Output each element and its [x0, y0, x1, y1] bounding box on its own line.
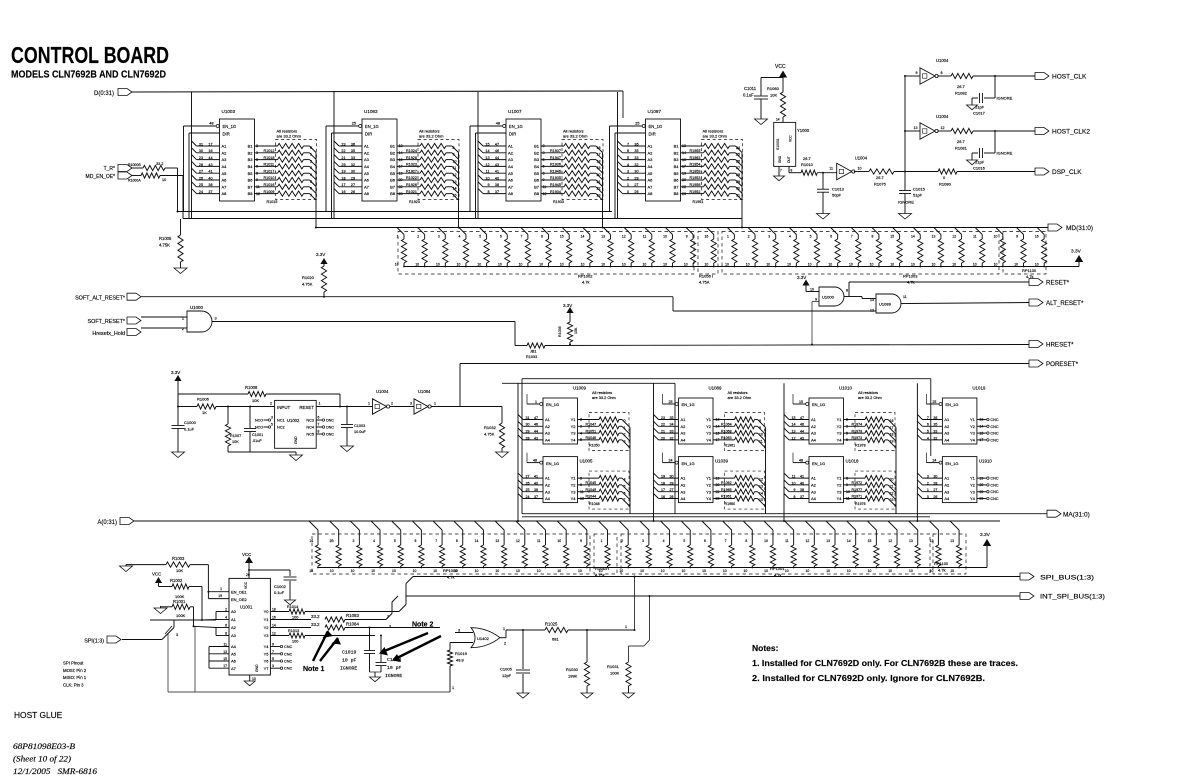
svg-text:DIR: DIR — [509, 131, 516, 136]
svg-text:B3: B3 — [248, 157, 254, 162]
resistor network of U1005 — [578, 476, 626, 507]
svg-text:NC3: NC3 — [306, 419, 314, 423]
svg-text:R1023: R1023 — [406, 163, 417, 167]
svg-text:2: 2 — [270, 402, 272, 406]
svg-text:A2: A2 — [545, 483, 551, 488]
svg-text:U1002: U1002 — [287, 418, 300, 423]
svg-text:13: 13 — [950, 539, 954, 543]
no-connects Y4-Y7 — [270, 645, 292, 671]
or gate U1402 — [450, 628, 500, 648]
ground below R1030 — [581, 693, 593, 698]
node ALT_RESET* output — [1029, 299, 1084, 307]
svg-text:7: 7 — [851, 235, 853, 239]
svg-text:10: 10 — [477, 263, 481, 267]
svg-text:8: 8 — [745, 539, 747, 543]
svg-text:2: 2 — [627, 176, 629, 180]
svg-text:C1005: C1005 — [500, 667, 513, 672]
svg-text:37: 37 — [208, 190, 212, 194]
wire input fan U1005 — [518, 473, 543, 499]
svg-text:NC5: NC5 — [306, 433, 314, 437]
svg-text:A3: A3 — [231, 633, 237, 638]
svg-text:S10031: S10031 — [776, 138, 780, 150]
svg-text:10K: 10K — [574, 327, 578, 334]
svg-text:13: 13 — [601, 235, 605, 239]
text SPI pinout — [63, 661, 87, 688]
svg-text:A5: A5 — [508, 171, 514, 176]
wire U1083 EN/DIR stubs — [326, 126, 362, 219]
wire pullup common rail row2 — [318, 567, 987, 569]
wire U1003 EN/DIR stubs — [184, 126, 220, 219]
svg-text:B4: B4 — [674, 164, 680, 169]
svg-text:3.3V: 3.3V — [563, 303, 572, 308]
svg-text:R1031: R1031 — [607, 664, 620, 669]
svg-text:0.1uF: 0.1uF — [274, 590, 285, 595]
svg-text:GND: GND — [294, 436, 298, 444]
svg-text:ONC: ONC — [326, 419, 334, 423]
svg-text:10: 10 — [808, 263, 812, 267]
resistor R1038 10K pull-up — [558, 303, 578, 346]
wire input fan U1018 — [784, 473, 809, 499]
svg-text:B8: B8 — [534, 191, 540, 196]
svg-text:4: 4 — [927, 436, 929, 440]
svg-text:R1063: R1063 — [721, 436, 732, 440]
svg-text:12: 12 — [622, 235, 626, 239]
resistor R1005 4.75K — [159, 219, 183, 268]
svg-text:6: 6 — [704, 539, 706, 543]
text HOST GLUE — [14, 710, 63, 720]
svg-text:R1032: R1032 — [484, 425, 497, 430]
svg-text:3: 3 — [642, 539, 644, 543]
svg-text:1: 1 — [434, 402, 436, 406]
svg-text:14: 14 — [792, 423, 796, 427]
svg-text:4: 4 — [225, 616, 227, 620]
svg-text:4.75K: 4.75K — [302, 282, 313, 287]
ground below C1000 — [172, 452, 185, 458]
svg-text:R1952: R1952 — [690, 190, 701, 194]
svg-text:R1933: R1933 — [553, 200, 564, 204]
svg-text:A2: A2 — [681, 424, 687, 429]
svg-text:RESET*: RESET* — [1046, 280, 1070, 287]
svg-text:2: 2 — [748, 235, 750, 239]
svg-text:12: 12 — [941, 126, 945, 130]
dashed outline U1018 pack — [855, 471, 895, 509]
svg-text:B1: B1 — [390, 144, 396, 149]
svg-text:A3: A3 — [508, 157, 514, 162]
no-connects NCO left — [255, 416, 273, 430]
svg-text:26: 26 — [526, 481, 530, 485]
wire ALT_RESET* run — [901, 295, 1029, 304]
svg-text:43: 43 — [800, 436, 804, 440]
node SPI(1:3) input — [84, 636, 121, 645]
svg-text:37: 37 — [800, 495, 804, 499]
svg-text:32: 32 — [634, 163, 638, 167]
svg-text:10: 10 — [684, 263, 688, 267]
dashed outline RP1100 — [1003, 232, 1046, 280]
svg-text:11: 11 — [829, 167, 833, 171]
svg-text:10: 10 — [557, 569, 561, 573]
svg-text:41: 41 — [208, 170, 212, 174]
svg-text:38: 38 — [800, 488, 804, 492]
capacitor C1003 10.0uF — [341, 407, 367, 447]
svg-text:10: 10 — [413, 569, 417, 573]
wire SPI_BUS drop — [625, 576, 636, 632]
svg-text:3: 3 — [768, 235, 770, 239]
svg-text:B4: B4 — [390, 164, 396, 169]
svg-text:10: 10 — [661, 569, 665, 573]
svg-text:4.75A: 4.75A — [699, 280, 710, 285]
svg-text:A7: A7 — [231, 666, 237, 671]
svg-text:23: 23 — [661, 416, 665, 420]
svg-text:10: 10 — [495, 569, 499, 573]
resistor R1008 10K bypass — [178, 385, 340, 407]
svg-text:7: 7 — [627, 142, 629, 146]
svg-text:10: 10 — [810, 288, 814, 292]
svg-text:U1000: U1000 — [190, 305, 203, 310]
svg-text:U1001: U1001 — [240, 605, 253, 610]
svg-text:12/1/2005 SMR-6816: 12/1/2005 SMR-6816 — [13, 767, 97, 776]
svg-text:A8: A8 — [222, 191, 228, 196]
wire input fan U1009 — [518, 415, 543, 441]
wire EN stub U1005 — [527, 453, 540, 463]
svg-text:7: 7 — [780, 169, 782, 173]
svg-text:35: 35 — [351, 149, 355, 153]
svg-text:A4: A4 — [811, 496, 817, 501]
svg-text:Y1: Y1 — [837, 476, 843, 481]
svg-text:NC2: NC2 — [277, 426, 285, 430]
svg-text:R1000B: R1000B — [128, 163, 141, 167]
svg-text:A3: A3 — [681, 431, 687, 436]
svg-text:U1019: U1019 — [972, 386, 985, 391]
svg-text:B8: B8 — [390, 191, 396, 196]
svg-text:26: 26 — [634, 190, 638, 194]
svg-text:Y7: Y7 — [264, 666, 270, 671]
svg-text:8: 8 — [487, 190, 489, 194]
svg-text:10: 10 — [351, 569, 355, 573]
svg-text:19: 19 — [341, 170, 345, 174]
svg-text:R1024: R1024 — [406, 149, 417, 153]
svg-text:13: 13 — [495, 539, 499, 543]
ground below U1002 — [290, 455, 303, 461]
svg-text:10: 10 — [330, 569, 334, 573]
svg-text:681: 681 — [552, 637, 559, 642]
svg-text:10K: 10K — [232, 440, 239, 444]
svg-text:CNC: CNC — [284, 660, 292, 664]
svg-text:10: 10 — [911, 263, 915, 267]
svg-text:VCC: VCC — [242, 552, 251, 557]
svg-text:21: 21 — [341, 156, 345, 160]
svg-text:14: 14 — [475, 539, 479, 543]
capacitor C1013 50pF — [817, 173, 845, 214]
svg-text:10: 10 — [519, 263, 523, 267]
svg-text:R1050: R1050 — [589, 443, 600, 447]
svg-text:R1045: R1045 — [586, 481, 597, 485]
svg-text:A6: A6 — [508, 178, 514, 183]
svg-text:31: 31 — [526, 416, 530, 420]
svg-text:2: 2 — [504, 642, 506, 646]
svg-text:are 33.2 Ohm: are 33.2 Ohm — [703, 134, 728, 139]
svg-text:27: 27 — [634, 183, 638, 187]
svg-text:40: 40 — [534, 481, 538, 485]
svg-text:B3: B3 — [674, 157, 680, 162]
wire PORESET* run — [460, 364, 1029, 407]
svg-text:R1951: R1951 — [693, 200, 704, 204]
wire output fan U1009 — [622, 420, 630, 514]
node MA(31:0) output — [1047, 510, 1090, 518]
svg-text:R1008: R1008 — [245, 385, 258, 390]
svg-text:EN_1G: EN_1G — [682, 402, 695, 407]
svg-text:IGNORE: IGNORE — [340, 666, 357, 672]
svg-text:A2: A2 — [648, 150, 654, 155]
svg-text:EN_OE2: EN_OE2 — [231, 597, 248, 602]
svg-text:5: 5 — [394, 539, 396, 543]
no-connects ONC right — [316, 416, 334, 423]
wire EN stub U1009 — [527, 394, 540, 404]
svg-text:R1081: R1081 — [955, 146, 968, 151]
svg-text:10: 10 — [475, 569, 479, 573]
svg-text:R1068: R1068 — [721, 429, 732, 433]
svg-text:3.3V: 3.3V — [316, 252, 325, 257]
svg-text:32: 32 — [351, 163, 355, 167]
svg-text:C1002: C1002 — [274, 584, 287, 589]
wire input fan U1910 — [917, 473, 942, 499]
wire RESET* run — [844, 282, 1029, 297]
wire SPI input run — [122, 620, 216, 640]
buffer IC U1089 — [669, 386, 722, 445]
svg-text:44: 44 — [800, 430, 804, 434]
svg-text:EN_1G: EN_1G — [812, 461, 825, 466]
node MD_EN_OE* input — [86, 172, 132, 180]
svg-text:A1: A1 — [944, 417, 950, 422]
svg-text:26.7: 26.7 — [803, 156, 812, 161]
svg-text:34: 34 — [670, 423, 674, 427]
svg-text:C1001: C1001 — [252, 433, 263, 437]
svg-text:CNC: CNC — [284, 645, 292, 649]
svg-text:R1022: R1022 — [406, 176, 417, 180]
wire reset gate output run — [212, 322, 527, 346]
svg-text:B5: B5 — [390, 171, 396, 176]
ground below R1031 — [623, 693, 635, 698]
svg-text:B4: B4 — [534, 164, 540, 169]
svg-text:R1051: R1051 — [586, 429, 597, 433]
svg-text:MODELS CLN7692B AND CLN7692D: MODELS CLN7692B AND CLN7692D — [11, 70, 166, 81]
svg-text:C1000: C1000 — [184, 420, 197, 425]
capacitor C1017 51pF IGNORE — [972, 76, 1013, 116]
svg-text:Note 2: Note 2 — [412, 622, 434, 629]
resistor network of U1009 — [578, 390, 626, 447]
svg-text:13: 13 — [223, 650, 227, 654]
svg-text:DSP_CLK: DSP_CLK — [1052, 169, 1082, 176]
wire mid routing rect top2 — [502, 382, 675, 384]
svg-text:EN_1G: EN_1G — [546, 461, 559, 466]
svg-text:C1015: C1015 — [913, 187, 926, 192]
svg-text:A6: A6 — [648, 178, 654, 183]
svg-text:10: 10 — [890, 263, 894, 267]
svg-text:Y2: Y2 — [970, 483, 976, 488]
node MD(31:0) output — [1048, 224, 1093, 232]
svg-text:A4: A4 — [681, 438, 687, 443]
svg-text:10: 10 — [994, 263, 998, 267]
wire U1402 output — [500, 627, 546, 646]
node T_R* input — [104, 165, 132, 173]
svg-text:30: 30 — [670, 475, 674, 479]
svg-text:R1971: R1971 — [852, 495, 863, 499]
svg-text:A4: A4 — [944, 438, 950, 443]
svg-text:27: 27 — [933, 488, 937, 492]
svg-text:1: 1 — [601, 539, 603, 543]
svg-text:37: 37 — [534, 495, 538, 499]
svg-text:U1000: U1000 — [822, 295, 835, 300]
svg-text:5: 5 — [627, 156, 629, 160]
svg-text:B1: B1 — [674, 144, 680, 149]
svg-text:Y4: Y4 — [837, 496, 843, 501]
svg-text:14: 14 — [581, 235, 585, 239]
ground below C1002 — [285, 600, 296, 605]
svg-text:17: 17 — [223, 664, 227, 668]
wire output fan U1005 — [622, 478, 630, 514]
svg-text:Y2: Y2 — [264, 625, 270, 630]
svg-text:HOST_CLK: HOST_CLK — [1052, 74, 1087, 81]
svg-text:30: 30 — [526, 423, 530, 427]
svg-text:5: 5 — [272, 657, 274, 661]
wire T_R vertical joins — [177, 168, 184, 219]
svg-text:EN_1G: EN_1G — [649, 124, 663, 129]
svg-text:Note 1: Note 1 — [303, 666, 325, 673]
ground R1003 left — [120, 565, 167, 572]
svg-text:7: 7 — [435, 539, 437, 543]
svg-text:A6: A6 — [222, 178, 228, 183]
buffer IC U1083 — [352, 109, 397, 201]
svg-text:1K: 1K — [202, 410, 207, 415]
svg-text:15: 15 — [792, 416, 796, 420]
resistor R1084 33.2 — [270, 622, 440, 631]
svg-text:CNC: CNC — [990, 418, 998, 422]
svg-text:CNC: CNC — [990, 490, 998, 494]
svg-text:12: 12 — [516, 539, 520, 543]
svg-text:5: 5 — [927, 430, 929, 434]
svg-text:HOST GLUE: HOST GLUE — [14, 710, 63, 720]
svg-text:19: 19 — [661, 475, 665, 479]
svg-text:VCC: VCC — [244, 581, 248, 589]
svg-text:4: 4 — [663, 539, 665, 543]
svg-text:R1011: R1011 — [264, 163, 275, 167]
svg-text:R1020: R1020 — [302, 275, 315, 280]
svg-text:are 33.2 Ohm: are 33.2 Ohm — [419, 134, 444, 139]
svg-text:CLK: Pin 3: CLK: Pin 3 — [63, 682, 84, 687]
wire output fan U1010 — [888, 420, 896, 514]
no-connects U1019 — [977, 418, 999, 443]
svg-text:SPI_BUS(1:3): SPI_BUS(1:3) — [1040, 575, 1094, 582]
svg-text:R1009: R1009 — [264, 190, 275, 194]
svg-text:33: 33 — [634, 156, 638, 160]
svg-text:Y1: Y1 — [571, 476, 577, 481]
svg-text:10: 10 — [162, 178, 166, 182]
svg-text:31: 31 — [199, 142, 203, 146]
svg-text:Y3: Y3 — [706, 431, 712, 436]
svg-text:Y4: Y4 — [706, 496, 712, 501]
svg-text:NC4: NC4 — [306, 426, 314, 430]
wire output fan U1087 to MD bus — [736, 146, 744, 229]
svg-text:3: 3 — [927, 475, 929, 479]
svg-text:16: 16 — [704, 235, 708, 239]
svg-text:VCC: VCC — [152, 572, 161, 577]
svg-text:3: 3 — [458, 629, 460, 633]
svg-text:10: 10 — [994, 235, 998, 239]
svg-text:RP1003: RP1003 — [903, 274, 918, 279]
ground below C1019/C1018 — [370, 677, 381, 682]
svg-text:27: 27 — [526, 475, 530, 479]
wire gnd rail under U1002 — [228, 452, 296, 455]
svg-text:41: 41 — [800, 475, 804, 479]
op-amp buffer U1004 reset — [368, 389, 393, 414]
svg-text:8: 8 — [846, 289, 848, 293]
svg-text:10: 10 — [704, 263, 708, 267]
svg-text:44: 44 — [495, 156, 499, 160]
svg-text:11: 11 — [643, 235, 647, 239]
resistor R1082 26.7 — [937, 73, 1035, 95]
svg-text:29: 29 — [526, 430, 530, 434]
wire column trunk U1009 — [517, 383, 519, 522]
svg-text:A1: A1 — [222, 144, 228, 149]
svg-text:26.7: 26.7 — [957, 139, 966, 144]
ground below C1005 — [517, 693, 529, 698]
svg-text:Y4: Y4 — [970, 438, 976, 443]
dashed outline resistor pack U1087 — [702, 140, 743, 200]
svg-text:1: 1 — [927, 488, 929, 492]
ground below C1017 — [967, 105, 978, 110]
svg-text:Y2: Y2 — [571, 424, 577, 429]
op-amp buffer U1004c HOST_CLK2 — [904, 114, 949, 139]
svg-text:13: 13 — [914, 126, 918, 130]
svg-text:HOST_CLK2: HOST_CLK2 — [1052, 129, 1090, 136]
svg-text:9: 9 — [580, 539, 582, 543]
svg-text:10: 10 — [619, 569, 623, 573]
svg-text:13: 13 — [826, 539, 830, 543]
svg-text:40: 40 — [495, 176, 499, 180]
svg-text:19: 19 — [218, 594, 222, 598]
resistor R1019 49.9 — [447, 643, 467, 693]
node INT_SPI_BUS(1:3) output — [1020, 593, 1105, 601]
svg-text:25: 25 — [932, 400, 936, 404]
svg-text:7: 7 — [927, 416, 929, 420]
svg-text:B7: B7 — [248, 184, 254, 189]
svg-text:10: 10 — [581, 263, 585, 267]
node HOST_CLK output — [1035, 73, 1087, 81]
svg-text:10: 10 — [950, 569, 954, 573]
svg-text:U1007: U1007 — [508, 109, 522, 114]
svg-text:12: 12 — [485, 163, 489, 167]
svg-text:47: 47 — [534, 416, 538, 420]
svg-text:A(0:31): A(0:31) — [97, 520, 117, 526]
svg-text:24: 24 — [932, 459, 936, 463]
resistor R1060 10K — [767, 86, 786, 122]
svg-text:A2: A2 — [944, 483, 950, 488]
svg-text:B8: B8 — [248, 191, 254, 196]
svg-text:B3: B3 — [534, 157, 540, 162]
svg-text:U1003: U1003 — [222, 109, 236, 114]
pin numbers U1001 — [223, 608, 276, 669]
wire column trunk U1089 — [653, 383, 655, 522]
svg-text:2: 2 — [225, 608, 227, 612]
wire MA rail2 — [522, 516, 930, 518]
svg-text:Y2: Y2 — [706, 424, 712, 429]
svg-text:4.7k: 4.7k — [582, 280, 590, 285]
svg-text:Y1: Y1 — [706, 417, 712, 422]
svg-text:11: 11 — [223, 643, 227, 647]
buffer IC U1007 — [496, 109, 541, 201]
text doc number — [13, 742, 97, 776]
power 3.3V row1 — [1071, 249, 1083, 267]
wire caps to ground — [370, 672, 382, 677]
